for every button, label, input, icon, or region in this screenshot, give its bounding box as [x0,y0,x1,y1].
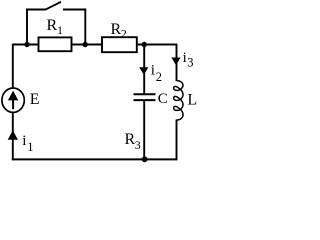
svg-text:E: E [30,91,40,108]
switch S blade (diagonal) [45,2,61,10]
current source E circle [2,88,24,112]
wire: switch top right horizontal [63,9,86,11]
wire: right vertical upper (L branch) [176,45,178,82]
svg-text:R: R [47,17,58,34]
wire: main horizontal between R1 and R2 [72,44,103,46]
svg-text:3: 3 [135,138,141,152]
svg-text:2: 2 [121,27,127,41]
resistor R1 box [39,37,72,51]
wire: main horizontal node wire left segment [13,44,39,46]
wire: main horizontal between R2 and right corner [137,44,178,46]
svg-text:3: 3 [187,56,193,70]
svg-text:1: 1 [27,140,33,154]
svg-text:2: 2 [156,70,162,84]
svg-text:i: i [151,63,155,79]
svg-text:i: i [183,50,187,66]
wire: switch top left horizontal [26,9,45,11]
wire: capacitor branch lower [143,101,145,160]
source arrow (up) [8,91,18,101]
node dot B (x=85) [83,42,88,47]
arrow i2 (down, capacitor branch) [139,67,148,75]
arrow i3 (down, L branch) [171,58,180,66]
wire: switch branch left vertical [26,9,28,45]
wire: switch branch right vertical [84,9,86,45]
wire: right vertical lower (L branch) [176,120,178,161]
wire: left vertical above source [12,44,14,89]
wire: left vertical below source [12,112,14,160]
capacitor C plates [134,93,156,95]
svg-text:C: C [158,91,168,107]
wire: capacitor branch upper [143,45,145,94]
svg-text:i: i [22,133,26,149]
wire: bottom horizontal [12,158,178,160]
node dot bottom (x=144.5) [142,156,148,162]
svg-text:1: 1 [57,23,63,37]
arrow i1 (up, on left wire) [8,130,18,139]
svg-text:L: L [187,91,197,108]
inductor L coil [174,81,183,120]
node dot C-top (x=144) [142,42,147,47]
node dot A (left, x=27) [24,42,29,47]
resistor R2 box [102,37,137,52]
